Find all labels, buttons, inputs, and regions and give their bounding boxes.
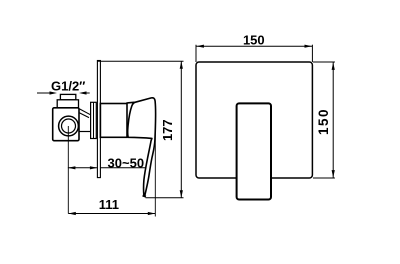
handle hub	[100, 104, 127, 138]
svg-text:111: 111	[99, 197, 119, 212]
wall plate edge-on	[97, 61, 100, 178]
dim 177	[97, 61, 183, 198]
svg-text:30~50: 30~50	[108, 156, 145, 171]
dim G1/2	[37, 91, 90, 94]
lever foot	[143, 196, 146, 197]
inlet port inner circle	[62, 119, 76, 133]
cone transition	[79, 109, 91, 118]
elbow body	[53, 108, 79, 141]
svg-text:G1/2″: G1/2″	[51, 79, 85, 94]
centerline of inlet	[67, 126, 69, 214]
stem	[91, 102, 97, 138]
dim 150 right	[313, 62, 335, 178]
svg-text:177: 177	[160, 119, 175, 141]
lever handle (side)	[127, 98, 156, 196]
collar	[57, 100, 78, 108]
handle (front)	[237, 103, 271, 199]
cartridge housing bottom	[79, 131, 91, 133]
svg-text:150: 150	[316, 108, 331, 135]
svg-text:150: 150	[243, 33, 265, 48]
inlet port outer circle	[59, 116, 79, 136]
dim 111	[68, 212, 155, 215]
thread pipe G1/2	[60, 94, 75, 99]
trim plate	[196, 62, 312, 178]
dim 150 top	[196, 45, 312, 62]
dim 111 extension line	[154, 130, 156, 217]
dim 30~50 line	[68, 166, 146, 169]
